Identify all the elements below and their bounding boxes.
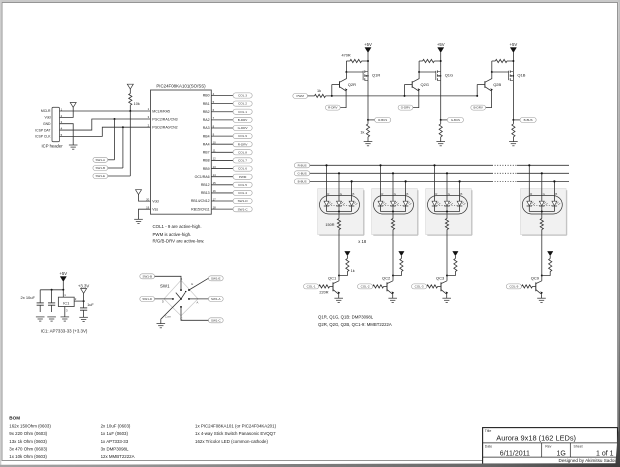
ground (Vss) — [134, 219, 143, 223]
node PWM/Q2R base — [331, 95, 333, 97]
svg-text:RB14/CN12: RB14/CN12 — [191, 199, 210, 203]
resistor 1k B-BUS pulldown — [512, 120, 515, 137]
svg-text:RB2: RB2 — [203, 110, 210, 114]
wire R-BUS bus dotted continuation — [492, 164, 517, 166]
svg-text:RB4: RB4 — [203, 134, 210, 138]
LED tricolor QC2 package — [374, 192, 414, 214]
svg-text:1G: 1G — [557, 450, 566, 457]
svg-text:G-DRV: G-DRV — [238, 126, 249, 130]
svg-text:QC2: QC2 — [382, 276, 391, 281]
ground (C3) — [79, 317, 88, 321]
wire +5V to Q1G source — [440, 53, 442, 72]
wire Vss pin19 to ground — [139, 209, 151, 219]
connector J1 ICP header — [35, 107, 63, 148]
ground (IC1) — [61, 317, 70, 321]
transistor Q2B NPN — [477, 72, 501, 91]
svg-text:RB12: RB12 — [201, 183, 210, 187]
net tag G-DRV — [398, 105, 413, 110]
wire pullup — [400, 256, 402, 259]
wire G-BUS bus line — [310, 172, 492, 174]
wire +5V to Q1R source — [367, 53, 369, 72]
node gate junction — [491, 71, 493, 73]
svg-text:R-BUS: R-BUS — [378, 118, 387, 122]
svg-text:Q1B: Q1B — [517, 72, 525, 77]
power +5V (QC1 pullup) — [345, 251, 350, 255]
svg-text:ICP header: ICP header — [42, 144, 64, 149]
svg-text:Aurora 9x18 (162 LEDs): Aurora 9x18 (162 LEDs) — [496, 434, 576, 443]
wire B-BUS bus dotted continuation — [492, 180, 517, 182]
svg-text:B-DRV: B-DRV — [474, 106, 483, 110]
svg-text:RB8: RB8 — [203, 159, 210, 163]
wire SW1-C to contact — [181, 307, 208, 320]
power +5V (QC2 pullup) — [399, 251, 404, 255]
wire base vertical to PWM line — [331, 85, 333, 96]
svg-text:RB13: RB13 — [201, 191, 210, 195]
wire PWM line across stages — [326, 95, 478, 97]
resistor 1k (QC2 pullup) — [400, 259, 403, 272]
wire emitter to ground — [392, 294, 394, 298]
node output junction — [83, 300, 85, 302]
net tag SW1-A (switch) — [208, 296, 223, 301]
wire G-BUS bus line right — [517, 172, 569, 174]
svg-text:B: B — [406, 192, 408, 196]
svg-text:B: B — [555, 192, 557, 196]
svg-text:COL 2: COL 2 — [238, 102, 247, 106]
title block — [483, 428, 618, 464]
wire emitter to ground — [446, 294, 448, 298]
wire Q1G drain to G-BUS — [440, 80, 442, 120]
svg-text:SW1-C: SW1-C — [238, 207, 249, 211]
wire B anode from bus — [351, 181, 353, 201]
resistor 10k MCLR pullup — [129, 94, 140, 107]
svg-text:COL 8: COL 8 — [238, 150, 247, 154]
wire cathode column down — [541, 230, 543, 276]
wire B anode from bus — [405, 181, 407, 201]
svg-text:PGD2/RA0/CN2: PGD2/RA0/CN2 — [152, 125, 177, 129]
svg-text:13x 1k Ohm (0603): 13x 1k Ohm (0603) — [9, 439, 47, 444]
node 470R / +5V junction — [440, 60, 442, 62]
node 470R / +5V junction — [367, 60, 369, 62]
node gate junction — [418, 71, 420, 73]
wire PGD to SW1-B — [122, 127, 124, 168]
wire Q1R drain to R-BUS — [367, 80, 369, 120]
ground (QC3) — [442, 298, 451, 302]
svg-text:IC1: AP7333-33 (+3.3V): IC1: AP7333-33 (+3.3V) — [41, 328, 88, 333]
node collector junction — [392, 275, 394, 277]
resistor 150R (QC2 column) — [391, 219, 394, 230]
wire pullup — [346, 256, 348, 259]
pin 5 RB1 wire to COL 2 — [203, 100, 252, 106]
wire to ground — [440, 137, 442, 142]
svg-text:RA2: RA2 — [203, 118, 210, 122]
wire gate node vertical — [491, 61, 493, 72]
wire emitter to R-DRV — [340, 91, 346, 108]
power +5V (stage G) — [438, 48, 444, 53]
resistor 220R (QC9 base) — [522, 285, 536, 288]
wire IC1 gnd pin to ground — [64, 307, 66, 317]
LED tricolor QC3 package — [428, 192, 468, 214]
svg-text:SW1-A: SW1-A — [211, 297, 221, 301]
resistor 150R (QC3 column) — [445, 219, 448, 230]
wire to ground — [367, 137, 369, 142]
svg-text:G-BUS: G-BUS — [298, 171, 307, 175]
svg-text:COL-1: COL-1 — [307, 285, 316, 289]
LED tricolor QC9 package — [522, 192, 562, 214]
ground (stage B) — [509, 142, 518, 146]
svg-text:MCLR/RA5: MCLR/RA5 — [152, 109, 170, 113]
IC1 regulator AP7333 — [58, 290, 74, 307]
wire SW1-A stub — [108, 159, 115, 161]
net tag R-BUS (LED array) — [294, 163, 310, 168]
resistor 150R (QC9 column) — [540, 219, 543, 230]
transistor Q1G p-MOSFET — [436, 70, 453, 80]
svg-text:RB0: RB0 — [203, 94, 210, 98]
svg-text:RA4: RA4 — [203, 142, 210, 146]
svg-text:IC1: IC1 — [63, 300, 70, 305]
wire PWM to 1k — [308, 95, 315, 97]
svg-text:1x PIC24F08KA101 (or PIC24F04K: 1x PIC24F08KA101 (or PIC24F04KA201) — [195, 424, 277, 429]
svg-text:RA3: RA3 — [203, 126, 210, 130]
switch contacts — [162, 277, 199, 321]
svg-text:3x DMP3098L: 3x DMP3098L — [101, 446, 129, 451]
svg-text:1uF: 1uF — [87, 303, 94, 307]
svg-text:1k: 1k — [360, 130, 364, 134]
net tag SW1-E (switch) — [208, 276, 223, 281]
transistor Q1R p-MOSFET — [363, 70, 380, 80]
net tag SW1-B (switch) — [140, 274, 155, 279]
svg-text:1x 10k Ohm (0603): 1x 10k Ohm (0603) — [9, 454, 47, 459]
svg-text:B: B — [352, 192, 354, 196]
node PWM/Q2B base — [476, 95, 478, 97]
wire PGC to SW1-A — [114, 119, 116, 160]
svg-text:Q2G: Q2G — [421, 82, 429, 87]
svg-text:QC9: QC9 — [531, 276, 540, 281]
svg-text:1k: 1k — [317, 89, 321, 93]
svg-text:Q2R: Q2R — [348, 82, 356, 87]
wire gate node to MOSFET gate — [419, 71, 436, 73]
svg-text:Vss: Vss — [152, 208, 158, 212]
ground (stage R) — [364, 142, 373, 146]
IC U1 PIC24F08KA101 — [146, 84, 211, 215]
svg-text:3x 470 Ohm (0603): 3x 470 Ohm (0603) — [9, 446, 47, 451]
svg-text:PWM: PWM — [239, 175, 247, 179]
svg-text:12x MMBT2222A: 12x MMBT2222A — [101, 454, 135, 459]
svg-text:SW1-C: SW1-C — [211, 318, 222, 322]
wire +5V to rail — [62, 282, 64, 290]
switch actuator — [176, 291, 187, 299]
wire SW1-B to contact — [155, 276, 181, 290]
svg-text:QC1: QC1 — [328, 276, 337, 281]
svg-text:Q1G: Q1G — [445, 72, 453, 77]
svg-text:Com: Com — [165, 314, 172, 318]
svg-text:RB9: RB9 — [203, 167, 210, 171]
wire emitter to ground — [338, 294, 340, 298]
resistor 1k PWM base — [315, 89, 326, 98]
wire cathode to resistor — [541, 212, 543, 219]
node collector junction — [541, 275, 543, 277]
svg-text:SW1-E: SW1-E — [211, 276, 221, 280]
svg-text:B-DRV: B-DRV — [238, 118, 249, 122]
wire emitter to G-DRV — [413, 91, 419, 108]
wire ICSP DAT to MCU pin3 net — [60, 119, 151, 130]
wire R-BUS bus line — [310, 164, 492, 166]
svg-text:Q2R, Q2G, Q2B, QC1-9: MMBT2222: Q2R, Q2G, Q2B, QC1-9: MMBT2222A — [318, 322, 392, 327]
wire G anode from bus — [338, 173, 340, 201]
transistor QC2 NPN — [382, 276, 394, 295]
wire pullup top — [129, 89, 131, 94]
power +3.3V (Vdd) — [136, 190, 142, 195]
net tag B-BUS (LED array) — [294, 179, 310, 184]
wire MCLR to SW1-E — [129, 111, 131, 176]
wire pullup to collector node — [542, 272, 550, 276]
ground (ICP header) — [69, 145, 78, 149]
svg-text:1x 4-way Stick Switch Panasoni: 1x 4-way Stick Switch Panasonic EVQQ7 — [195, 431, 276, 436]
pin 6 RB2 wire to COL 1 — [203, 108, 252, 114]
LED tricolor QC1 package — [320, 192, 360, 214]
pin 14 OC1/RA6 wire to PWM — [195, 173, 253, 179]
svg-text:COL1 - 9 are active-high.: COL1 - 9 are active-high. — [153, 224, 202, 229]
net tag R-BUS — [375, 117, 391, 122]
node rail/cap2 — [51, 289, 53, 291]
wire G anode from bus — [541, 173, 543, 201]
ground (SW1 Com) — [157, 324, 166, 328]
svg-text:PIC24F08KA101(SO/SS): PIC24F08KA101(SO/SS) — [156, 84, 206, 89]
LED module box (QC2) — [372, 189, 418, 236]
resistor 220R (QC1 base) — [319, 285, 333, 295]
svg-text:COL-2: COL-2 — [361, 285, 370, 289]
wire B anode from bus — [459, 181, 461, 201]
wire cathode to resistor — [392, 212, 394, 219]
svg-text:RB15/CN11: RB15/CN11 — [191, 207, 209, 211]
svg-text:6/11/2011: 6/11/2011 — [500, 450, 530, 457]
wire R anode from bus — [528, 165, 530, 201]
wire emitter to ground — [541, 294, 543, 298]
transistor QC9 NPN — [531, 276, 543, 295]
svg-text:SW1-D: SW1-D — [142, 297, 153, 301]
ground (QC9) — [537, 298, 546, 302]
wire +3.3V stem — [83, 293, 85, 301]
pin 18 RB15/CN11 wire to SW1-C — [191, 205, 252, 211]
transistor Q2R NPN — [332, 72, 356, 91]
svg-text:COL 9: COL 9 — [238, 134, 247, 138]
wire Com to ground — [161, 299, 181, 324]
svg-text:R-BUS: R-BUS — [298, 163, 307, 167]
capacitor C3 1uF — [80, 301, 94, 317]
wire G anode from bus — [392, 173, 394, 201]
power +5V (stage B) — [510, 48, 516, 53]
svg-text:20: 20 — [146, 197, 150, 201]
transistor Q1B p-MOSFET — [509, 70, 526, 80]
transistor QC3 NPN — [436, 276, 448, 295]
wire R anode from bus — [380, 165, 382, 201]
wire base vertical to PWM line — [476, 85, 478, 96]
svg-text:+3.3V: +3.3V — [78, 283, 89, 288]
svg-text:Date: Date — [485, 444, 492, 448]
resistor 470R gate pullup B — [492, 59, 514, 62]
pin 12 RB8 wire to COL 7 — [203, 157, 252, 163]
wire Q1B drain to B-BUS — [512, 80, 514, 120]
net tag SW1-C (switch) — [208, 318, 223, 323]
svg-text:Vdd: Vdd — [44, 116, 50, 120]
pin 11 RB7 wire to COL 8 — [203, 149, 252, 155]
svg-text:COL 4: COL 4 — [238, 191, 247, 195]
net tag R-DRV — [325, 105, 340, 110]
node R-BUS junction — [367, 119, 369, 121]
svg-text:Vdd: Vdd — [152, 199, 158, 203]
wire MCLR from header pin1 to MCU pin1 — [60, 110, 151, 112]
ground (C1) — [36, 317, 45, 321]
power +3.3V (MCLR pullup) — [127, 84, 133, 89]
svg-text:162x Tricolor LED (common-cath: 162x Tricolor LED (common-cathode) — [195, 439, 268, 444]
wire pullup to collector node — [339, 272, 347, 276]
wire pullup — [549, 256, 551, 259]
wire gate node vertical — [345, 61, 347, 72]
svg-text:SW1-B: SW1-B — [142, 274, 152, 278]
wire cathode to resistor — [446, 212, 448, 219]
svg-text:B: B — [460, 192, 462, 196]
node 470R / +5V junction — [512, 60, 514, 62]
svg-text:SW1-D: SW1-D — [238, 199, 249, 203]
wire B-BUS stub — [513, 119, 520, 121]
net tag G-BUS — [447, 117, 463, 122]
node G-BUS junction — [440, 119, 442, 121]
net tag COL-3 — [412, 284, 427, 289]
svg-text:QC3: QC3 — [436, 276, 445, 281]
LED module box (QC3) — [426, 189, 472, 236]
svg-text:Title: Title — [485, 429, 492, 433]
wire B-BUS bus line — [310, 180, 492, 182]
svg-text:x 18: x 18 — [358, 239, 367, 244]
wire R-BUS bus line right — [517, 164, 569, 166]
node B-BUS junction — [512, 119, 514, 121]
svg-text:220R: 220R — [319, 291, 328, 295]
svg-text:OC1/RA6: OC1/RA6 — [195, 175, 210, 179]
resistor 470R gate pullup G — [419, 59, 441, 62]
svg-text:RB7: RB7 — [203, 151, 210, 155]
node MCLR junction — [129, 110, 131, 112]
wire cathode column down — [338, 230, 340, 276]
resistor 220R (QC3 base) — [427, 285, 441, 288]
node PGD junction — [122, 126, 124, 128]
ground (QC2) — [388, 298, 397, 302]
LED module box (QC1) — [318, 189, 364, 236]
svg-text:10k: 10k — [134, 102, 140, 106]
svg-text:COL-9: COL-9 — [509, 285, 518, 289]
svg-text:B-BUS: B-BUS — [524, 118, 533, 122]
pin 8 RA3 wire to G-DRV — [203, 124, 252, 130]
svg-text:+5V: +5V — [364, 42, 372, 47]
wire IC1 output — [74, 300, 83, 302]
resistor 1k (QC3 pullup) — [454, 259, 457, 272]
net tag COL-1 — [304, 284, 319, 289]
pin 10 RA4 wire to R-DRV — [203, 141, 252, 147]
pin 17 RB14/CN12 wire to SW1-D — [191, 197, 252, 203]
svg-text:BOM: BOM — [9, 415, 20, 420]
svg-text:162x 150Ohm (0603): 162x 150Ohm (0603) — [9, 424, 51, 429]
wire to ground — [512, 137, 514, 142]
transistor QC1 NPN — [328, 276, 340, 295]
svg-text:COL 1: COL 1 — [238, 110, 247, 114]
svg-text:R-DRV: R-DRV — [328, 106, 337, 110]
net tag B-DRV — [471, 105, 486, 110]
svg-text:470R: 470R — [342, 54, 351, 58]
pin 16 RB13 wire to COL 4 — [201, 189, 252, 195]
wire +5V to Q1B source — [512, 53, 514, 72]
wire SW1-E to contact — [189, 278, 208, 290]
ground (C2) — [47, 317, 56, 321]
wire SW1-B stub — [108, 167, 123, 169]
wire Vdd pin20 to +3.3V — [139, 195, 151, 202]
svg-text:+5V: +5V — [510, 42, 518, 47]
resistor 220R (QC2 base) — [373, 285, 387, 288]
svg-text:R-DRV: R-DRV — [238, 142, 249, 146]
svg-text:Q2B: Q2B — [493, 82, 501, 87]
svg-text:SW1: SW1 — [160, 283, 170, 288]
svg-text:Rev: Rev — [545, 444, 551, 448]
net tag SW1-B — [93, 166, 108, 171]
net tag SW1-D (switch) — [140, 296, 155, 301]
net tag PWM input — [293, 93, 308, 98]
node rail/IC1 input — [62, 289, 64, 291]
wire GND header pin3 to ground — [60, 124, 74, 145]
wire R anode from bus — [434, 165, 436, 201]
wire ICSP CLK to MCU pin2 net — [60, 127, 151, 136]
net tag SW1-E — [93, 174, 108, 179]
svg-text:SW1-B: SW1-B — [96, 166, 106, 170]
resistor 1k (QC9 pullup) — [549, 259, 552, 272]
svg-text:+5V: +5V — [437, 42, 445, 47]
wire pullup — [454, 256, 456, 259]
svg-text:+5V: +5V — [59, 271, 67, 276]
svg-text:Sheet: Sheet — [574, 444, 583, 448]
capacitor C2 10uF — [48, 290, 55, 312]
capacitor C1 10uF — [37, 290, 44, 312]
svg-text:E: E — [191, 282, 193, 286]
svg-text:SW1-A: SW1-A — [96, 158, 106, 162]
svg-text:RB1: RB1 — [203, 102, 210, 106]
svg-text:COL 6: COL 6 — [238, 167, 247, 171]
svg-text:COL-3: COL-3 — [415, 285, 424, 289]
svg-text:Designed by Akimitsu Sadoi: Designed by Akimitsu Sadoi — [559, 458, 616, 463]
resistor 1k R-BUS pulldown — [360, 120, 369, 137]
resistor 470R gate pullup R — [342, 54, 369, 63]
wire G-BUS bus dotted continuation — [492, 172, 517, 174]
svg-text:19: 19 — [146, 205, 150, 209]
svg-text:A: A — [196, 301, 198, 305]
svg-text:B-BUS: B-BUS — [298, 180, 307, 184]
wire cathode to resistor — [338, 212, 340, 219]
power +5V (stage R) — [365, 48, 371, 53]
wire pullup to collector node — [393, 272, 401, 276]
transistor Q2G NPN — [405, 72, 429, 91]
power +3.3V (header) — [70, 103, 76, 108]
net tag COL-9 — [506, 284, 521, 289]
wire SW1-D to contact — [155, 298, 173, 300]
wire supply rail — [40, 289, 63, 291]
switch SW1 body — [160, 280, 198, 316]
svg-text:1k: 1k — [351, 269, 355, 273]
power +3.3V (regulator output) — [81, 289, 87, 294]
node PWM/Q2G base — [404, 95, 406, 97]
wire R-BUS stub — [368, 119, 375, 121]
svg-text:1x 1uF (0603): 1x 1uF (0603) — [101, 431, 129, 436]
wire emitter to B-DRV — [486, 91, 492, 108]
node PGC junction — [114, 118, 116, 120]
svg-text:COL 3: COL 3 — [238, 94, 247, 98]
svg-text:9x 220 Ohm (0603): 9x 220 Ohm (0603) — [9, 431, 47, 436]
power +5V (QC3 pullup) — [453, 251, 458, 255]
svg-text:2x 10uF: 2x 10uF — [21, 295, 36, 300]
